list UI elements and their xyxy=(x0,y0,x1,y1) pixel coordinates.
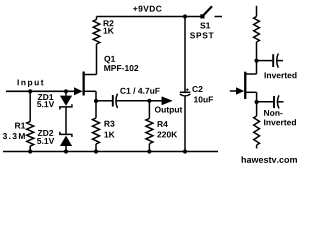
wire +9VDC top rail xyxy=(97,16,203,18)
node +9VDC label xyxy=(133,6,161,12)
wire mini drain lead xyxy=(256,61,258,74)
arrow mini gate xyxy=(236,87,244,95)
wire S1 open contact dash xyxy=(215,16,223,18)
zener diode ZD2 xyxy=(60,132,72,137)
label Non- xyxy=(264,110,282,116)
wire R1 bottom lead xyxy=(29,146,31,152)
value ZD2 5.1V xyxy=(37,138,54,144)
wire source to C1 xyxy=(96,100,112,102)
wire input rail xyxy=(6,90,75,92)
junction source node xyxy=(94,99,98,103)
arrow Output xyxy=(162,97,172,105)
junction rail/R3 xyxy=(94,149,98,153)
label SPST xyxy=(190,32,214,38)
zener diode ZD1 xyxy=(60,96,72,106)
wire R1 top lead xyxy=(29,91,31,121)
transistor Q1 MPF-102 xyxy=(83,72,85,96)
wire R2 top lead xyxy=(96,17,98,20)
resistor mini drain load xyxy=(254,17,260,43)
resistor R2 xyxy=(93,20,100,45)
wire mini source resistor bottom lead xyxy=(256,145,258,149)
junction rail/R1 xyxy=(28,149,32,153)
label ZD1 xyxy=(38,94,54,100)
node Output label xyxy=(155,107,182,115)
label Inverted xyxy=(265,72,297,78)
wire mini resistor to drain node xyxy=(256,42,258,61)
transistor mini JFET xyxy=(244,72,246,99)
wire R2 to Q1 drain xyxy=(96,44,98,75)
capacitor non-inverted output coupling xyxy=(273,96,275,108)
value C2 10uF xyxy=(194,96,213,102)
junction output node xyxy=(147,99,151,103)
label Inverted 2 xyxy=(264,119,296,125)
wire R4 bottom lead xyxy=(148,144,150,152)
wire R3 bottom lead xyxy=(95,144,97,152)
wire ground rail xyxy=(3,151,218,153)
switch S1 xyxy=(200,14,204,18)
value R4 220K xyxy=(157,131,177,137)
resistor R3 xyxy=(93,118,100,144)
value MPF-102 xyxy=(104,65,138,71)
label R2 xyxy=(104,20,114,26)
junction input/ZD1 xyxy=(64,89,68,93)
value ZD1 5.1V xyxy=(37,101,54,107)
wire Q1 source down xyxy=(95,91,97,101)
wire to R4 xyxy=(148,101,150,119)
resistor mini source load xyxy=(254,116,260,145)
wire top rail to C2 xyxy=(184,17,186,92)
label S1 xyxy=(200,22,210,28)
resistor R4 xyxy=(146,118,153,143)
label hawestv.com xyxy=(242,156,297,163)
capacitor inverted output coupling xyxy=(272,54,274,67)
junction rail/ZD2 xyxy=(64,149,68,153)
wire C1 to output node xyxy=(116,100,149,102)
wire to ZD1 xyxy=(65,91,67,95)
wire to output arrow xyxy=(149,100,162,102)
value C1 4.7uF xyxy=(120,88,159,94)
junction mini drain node xyxy=(254,59,258,63)
label R1 xyxy=(15,123,25,129)
wire ZD1 to ZD2 xyxy=(65,107,67,134)
label R3 xyxy=(104,121,114,127)
junction top rail/C2 xyxy=(183,14,187,18)
wire to inverted cap xyxy=(257,60,273,62)
label C2 xyxy=(192,86,202,92)
junction mini source node xyxy=(255,100,259,104)
resistor R1 xyxy=(27,122,34,147)
wire mini drain resistor top lead xyxy=(256,6,258,17)
wire to non-inverted cap xyxy=(257,101,273,103)
wire mini gate stub xyxy=(230,90,237,92)
capacitor C1 4.7uF xyxy=(112,95,114,107)
value R3 1K xyxy=(104,132,114,138)
capacitor C2 10uF electrolytic xyxy=(180,91,191,93)
junction input/R1 xyxy=(28,89,32,93)
label R4 xyxy=(158,121,168,127)
label Q1 xyxy=(104,56,115,64)
wire to R3 xyxy=(95,101,97,118)
wire ZD2 bottom lead xyxy=(65,146,67,152)
node Input label xyxy=(18,79,44,87)
junction rail/R4 xyxy=(147,149,151,153)
label ZD2 xyxy=(38,130,53,136)
wire mini source resistor top lead xyxy=(256,102,258,116)
value R1 3.3M xyxy=(3,133,25,139)
junction rail/C2 xyxy=(183,149,187,153)
value R2 1K xyxy=(104,28,114,34)
wire mini source lead xyxy=(256,92,258,102)
wire C2 to ground rail xyxy=(184,96,186,152)
wire inverted cap lead xyxy=(277,60,283,62)
wire non-inverted cap lead xyxy=(278,101,284,103)
